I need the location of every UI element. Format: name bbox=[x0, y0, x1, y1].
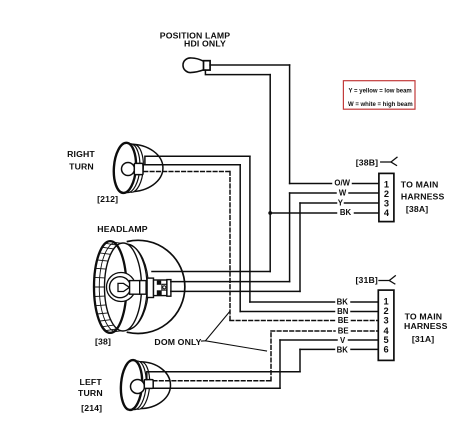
wire: left turn 1 vertical to BK pin6 bbox=[299, 349, 301, 371]
wire: O/W horizontal left segment bbox=[290, 183, 332, 185]
wire: left turn 3 horizontal bbox=[153, 387, 280, 389]
leader line DOM ONLY upper bbox=[202, 312, 230, 341]
svg-text:TURN: TURN bbox=[69, 162, 94, 172]
svg-text:HARNESS: HARNESS bbox=[401, 192, 445, 202]
wire: W vertical bbox=[289, 193, 291, 282]
svg-text:1: 1 bbox=[384, 297, 389, 307]
wire: W right segment to pin 2 bbox=[349, 192, 379, 194]
wire: V5 horizontal left segment bbox=[280, 339, 337, 341]
wire: left turn 2 dashed horizontal bbox=[153, 380, 271, 382]
legend box bbox=[343, 81, 415, 110]
wire: right turn 2 horizontal bbox=[143, 164, 240, 166]
wire: right turn 1 jog bbox=[145, 156, 250, 163]
wire: W horizontal left segment bbox=[290, 192, 336, 194]
connector block 31B bbox=[378, 290, 394, 360]
svg-text:W = white = high beam: W = white = high beam bbox=[348, 102, 413, 108]
svg-text:3: 3 bbox=[384, 198, 389, 208]
wire: Y right segment to pin 3 bbox=[345, 202, 379, 204]
svg-text:HARNESS: HARNESS bbox=[404, 321, 448, 331]
wire: BK1 right segment bbox=[351, 301, 378, 303]
svg-text:V: V bbox=[340, 336, 346, 345]
wire: headlamp ground horizontal bbox=[152, 271, 270, 273]
wire: right turn 3 dashed horizontal bbox=[144, 171, 230, 173]
svg-text:O/W: O/W bbox=[334, 179, 350, 188]
wire: BK horizontal left segment to label bbox=[270, 212, 336, 214]
svg-text:RIGHT: RIGHT bbox=[67, 149, 95, 159]
pin numbers 31B bbox=[384, 297, 390, 355]
svg-text:HEADLAMP: HEADLAMP bbox=[97, 224, 147, 234]
wire: headlamp high beam horizontal bbox=[171, 281, 290, 283]
wire: Y horizontal left segment bbox=[300, 202, 337, 204]
svg-text:[38B]: [38B] bbox=[356, 157, 378, 167]
connector symbol 38B bbox=[381, 157, 397, 165]
wire: O/W vertical down bbox=[289, 65, 291, 184]
wire: left turn 2 dashed vertical bbox=[270, 331, 272, 381]
wire: BN2 right segment bbox=[351, 311, 378, 313]
wire: BK right segment to pin 4 bbox=[355, 212, 379, 214]
wire: position lamp top to O/W vertical bbox=[210, 64, 290, 66]
wire: BE4 dashed horizontal left segment bbox=[271, 330, 335, 332]
label TO MAIN HARNESS [38A] bbox=[401, 179, 445, 214]
wire: left turn 3 vertical to V pin5 bbox=[279, 340, 281, 388]
pin numbers 38B bbox=[384, 179, 390, 218]
wire: right turn 3 dashed vertical bbox=[229, 172, 231, 321]
label RIGHT TURN bbox=[67, 149, 95, 171]
svg-text:TURN: TURN bbox=[78, 388, 103, 398]
svg-text:3: 3 bbox=[384, 315, 389, 325]
svg-text:[212]: [212] bbox=[97, 194, 118, 204]
svg-text:BK: BK bbox=[340, 208, 352, 217]
svg-text:W: W bbox=[339, 189, 347, 198]
wire: right turn 2 vertical bbox=[239, 165, 241, 312]
wire: left turn 1 jog bbox=[147, 372, 300, 380]
svg-text:6: 6 bbox=[384, 345, 389, 355]
svg-text:[31A]: [31A] bbox=[412, 334, 434, 344]
svg-text:2: 2 bbox=[384, 189, 389, 199]
wire: BE3 dashed right segment bbox=[352, 320, 379, 322]
svg-text:[214]: [214] bbox=[81, 403, 102, 413]
wire: BK6 right segment bbox=[351, 348, 378, 350]
position lamp bulb bbox=[183, 58, 210, 73]
junction dot BK bbox=[268, 211, 272, 215]
headlamp bbox=[94, 240, 185, 333]
svg-text:4: 4 bbox=[384, 208, 390, 218]
wire: V5 right segment bbox=[349, 339, 379, 341]
connector symbol 31B bbox=[379, 276, 395, 284]
svg-text:Y = yellow = low beam: Y = yellow = low beam bbox=[349, 89, 412, 95]
svg-text:LEFT: LEFT bbox=[80, 377, 103, 387]
wire: BE3 dashed horizontal left segment bbox=[230, 320, 335, 322]
wire: headlamp low beam horizontal bbox=[171, 290, 300, 292]
label LEFT TURN bbox=[78, 377, 103, 398]
svg-text:[38A]: [38A] bbox=[406, 204, 428, 214]
wire: O/W horizontal right segment to pin 1 bbox=[353, 183, 379, 185]
wire: BN2 horizontal left segment bbox=[240, 311, 334, 313]
wire: position lamp bottom jog bbox=[205, 70, 270, 75]
leader line DOM ONLY lower bbox=[205, 341, 266, 351]
right turn lamp bbox=[112, 142, 163, 194]
svg-text:BE: BE bbox=[338, 327, 349, 336]
wire: Y vertical bbox=[299, 203, 301, 291]
svg-text:[38]: [38] bbox=[95, 336, 111, 346]
left turn lamp bbox=[119, 359, 170, 410]
svg-text:BK: BK bbox=[337, 297, 349, 306]
svg-text:[31B]: [31B] bbox=[355, 275, 377, 285]
svg-text:Y: Y bbox=[338, 199, 344, 208]
wire: BK1 horizontal left segment bbox=[250, 301, 335, 303]
wire: BE4 dashed right segment bbox=[352, 330, 379, 332]
wire: BK common vertical (position lamp + headlamp ground) bbox=[269, 75, 271, 272]
svg-text:BN: BN bbox=[337, 307, 349, 316]
svg-text:TO MAIN: TO MAIN bbox=[401, 179, 439, 189]
label TO MAIN HARNESS [31A] bbox=[404, 312, 448, 344]
svg-text:BE: BE bbox=[338, 316, 349, 325]
wire: right turn 1 vertical to 31B pin1 bbox=[249, 156, 251, 302]
wire: BK6 horizontal left segment bbox=[300, 348, 335, 350]
svg-text:HDI ONLY: HDI ONLY bbox=[184, 38, 226, 48]
connector block 38B bbox=[379, 173, 394, 221]
svg-text:1: 1 bbox=[384, 179, 389, 189]
svg-text:BK: BK bbox=[337, 345, 349, 354]
svg-text:DOM ONLY: DOM ONLY bbox=[154, 337, 201, 347]
